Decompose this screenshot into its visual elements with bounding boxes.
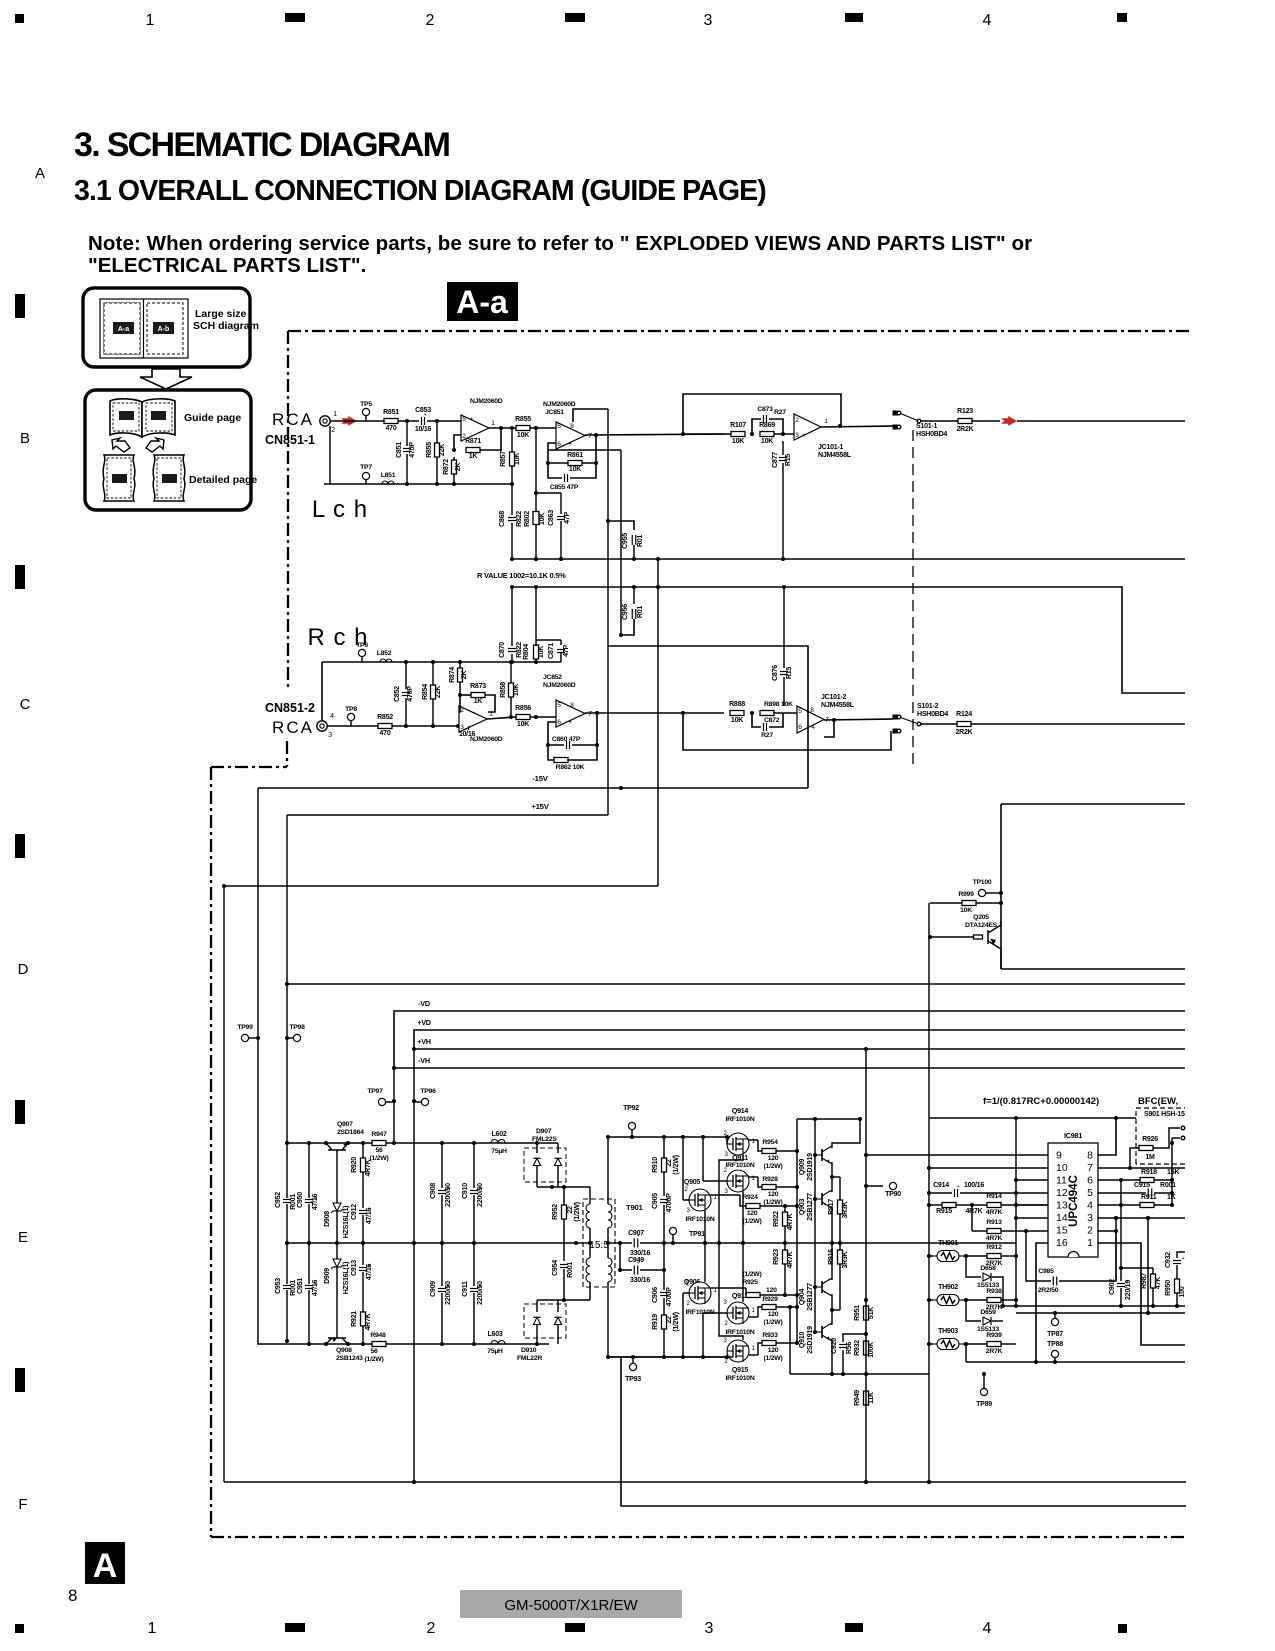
svg-text:R932: R932 (854, 1340, 861, 1356)
svg-text:C954: C954 (552, 1260, 559, 1276)
wire +V drop (413, 1049, 415, 1482)
svg-text:470P: 470P (407, 686, 414, 702)
row mark A-B (15, 294, 25, 318)
capacitor C870 (511, 587, 513, 646)
test point TP6 (358, 649, 365, 656)
legend book left page (110, 399, 142, 437)
svg-text:TP91: TP91 (689, 1231, 705, 1238)
legend box large-size SCH diagram (83, 288, 250, 367)
svg-text:2SB1243: 2SB1243 (336, 1355, 363, 1362)
switch S101-1 HSH0BD4 (893, 411, 898, 415)
svg-text:R56: R56 (846, 1342, 853, 1354)
svg-text:R888: R888 (729, 701, 745, 708)
legend arrow down (140, 369, 192, 389)
diode D907a (536, 1143, 538, 1153)
capacitor C873 (752, 419, 761, 434)
svg-text:R947: R947 (371, 1131, 387, 1138)
diode D910a (536, 1300, 538, 1312)
resistor R872 2K (452, 460, 457, 474)
svg-text:C907: C907 (628, 1230, 644, 1237)
svg-text:120: 120 (747, 1210, 758, 1217)
mosfet Q915 IRF1010N (727, 1340, 749, 1362)
svg-text:R124: R124 (956, 711, 972, 718)
registration mark top 3-4 (845, 13, 863, 22)
svg-text:+: + (467, 724, 471, 731)
rail +VD (414, 1030, 1185, 1049)
wire to JC851a (427, 420, 461, 422)
test point TP87 (1051, 1318, 1058, 1325)
svg-text:L603: L603 (487, 1331, 502, 1338)
svg-text:2SD1919: 2SD1919 (807, 1153, 814, 1181)
svg-text:22K: 22K (435, 685, 442, 698)
capacitor C985 2R2/50 (1052, 1277, 1054, 1286)
svg-text:56: 56 (375, 1147, 383, 1154)
page corner mark bottom-left (15, 1624, 24, 1633)
wire bus x224 (224, 885, 658, 887)
svg-text:R855: R855 (515, 416, 531, 423)
svg-text:R804: R804 (523, 644, 530, 660)
resistor R851 (384, 419, 398, 424)
node R888-R898 (750, 711, 754, 715)
svg-text:C920: C920 (831, 1338, 838, 1354)
svg-text:C952: C952 (275, 1192, 282, 1208)
vertical bus x621 (620, 450, 622, 635)
svg-text:2: 2 (1087, 1225, 1093, 1237)
ground rail Lch input (324, 483, 512, 485)
svg-text:2: 2 (724, 1321, 728, 1327)
A-a region border left lower (210, 767, 212, 1537)
svg-text:R123: R123 (957, 408, 973, 415)
svg-text:R918: R918 (1141, 1169, 1157, 1176)
svg-text:R001: R001 (567, 1262, 574, 1278)
svg-text:D908: D908 (324, 1211, 331, 1227)
wire Q906 source (704, 1243, 706, 1282)
page corner mark top-right (1117, 13, 1127, 22)
capacitor C915 R001 (1147, 1189, 1149, 1198)
svg-text:TH901: TH901 (938, 1240, 958, 1247)
svg-text:R912: R912 (986, 1244, 1002, 1251)
test point TP5 (362, 408, 369, 415)
svg-text:C910: C910 (462, 1183, 469, 1199)
svg-text:S101-1: S101-1 (916, 423, 938, 430)
wire pin10 (929, 1167, 1048, 1169)
svg-text:3: 3 (1087, 1212, 1093, 1224)
transformer T901 dashed box (583, 1199, 615, 1287)
resistor R804 10K (534, 645, 539, 659)
svg-text:6: 6 (557, 441, 561, 448)
resistor R949 11K (864, 1391, 869, 1405)
wire gate Q905 (682, 1137, 684, 1200)
svg-text:TP100: TP100 (973, 879, 992, 886)
op-amp JC101-2 NJM4558L (797, 706, 824, 733)
svg-text:(1/2W): (1/2W) (764, 1199, 783, 1206)
legend book right dashed (146, 403, 172, 431)
A-a region border bottom (211, 1536, 1186, 1538)
diode pair D907 FML22S dashed box (524, 1148, 566, 1182)
svg-text:UPC494C: UPC494C (1068, 1175, 1080, 1227)
node C854 (456, 724, 460, 728)
svg-text:1K: 1K (474, 698, 484, 705)
svg-text:10K: 10K (513, 683, 520, 696)
capacitor C954 (560, 1264, 568, 1266)
A-a region border top (288, 330, 1190, 332)
svg-text:C855 47P: C855 47P (550, 484, 579, 491)
svg-text:5: 5 (557, 423, 561, 430)
legend arrow to detail right (146, 438, 164, 452)
svg-text:3.1 OVERALL CONNECTION DIAGRAM: 3.1 OVERALL CONNECTION DIAGRAM (GUIDE PA… (74, 175, 766, 207)
svg-text:R001: R001 (1160, 1182, 1176, 1189)
svg-text:D: D (18, 961, 29, 978)
svg-text:15:5: 15:5 (589, 1240, 609, 1251)
wire JC101-2 out (824, 719, 893, 720)
svg-text:NJM2060D: NJM2060D (470, 398, 503, 405)
wire Rch output line (971, 723, 1185, 725)
svg-text:10K: 10K (732, 438, 745, 445)
svg-text:TP99: TP99 (237, 1024, 253, 1031)
svg-text:TP87: TP87 (1047, 1331, 1063, 1338)
legend book left dashed (113, 403, 139, 431)
svg-text:(1/2W): (1/2W) (743, 1271, 762, 1278)
svg-text:22: 22 (666, 1316, 673, 1324)
transformer secondary taps (620, 1242, 632, 1244)
wire pin14 (1016, 1217, 1048, 1219)
capacitor C950 47/16 (308, 1143, 310, 1198)
capacitor C906 4700P (663, 1243, 665, 1290)
svg-text:(1/2W): (1/2W) (370, 1155, 389, 1162)
svg-text:-15V: -15V (532, 774, 548, 783)
svg-text:120: 120 (768, 1347, 779, 1354)
wire JC851b out (585, 434, 731, 435)
svg-text:75µH: 75µH (487, 1348, 503, 1355)
wire node y1374 (790, 1373, 929, 1375)
svg-text:IRF1010N: IRF1010N (725, 1162, 754, 1169)
resistor R954 120 (1/2W) (749, 1139, 758, 1141)
svg-text:R822: R822 (516, 511, 523, 527)
resistor R938 2R7K (966, 1299, 987, 1301)
feedback C855 47P (548, 463, 562, 478)
legend mini label A-a (113, 322, 134, 334)
capacitor C909 2200/50 (441, 1243, 443, 1286)
diode D910b (557, 1300, 559, 1312)
node R107-R869 (750, 432, 754, 436)
svg-text:R855: R855 (426, 442, 433, 458)
svg-text:13: 13 (1056, 1200, 1068, 1212)
svg-text:10/16: 10/16 (415, 426, 432, 433)
svg-text:C955: C955 (622, 533, 629, 549)
svg-text:TP7: TP7 (360, 464, 372, 471)
resistor R948 56 (1/2W) (372, 1342, 386, 1347)
wire pin6 (1098, 1179, 1121, 1181)
svg-text:R873: R873 (470, 683, 486, 690)
svg-text:2K: 2K (455, 462, 462, 472)
svg-text:(1/2W): (1/2W) (365, 1356, 384, 1363)
svg-text:C911: C911 (462, 1281, 469, 1297)
S901 dashed box (1136, 1108, 1185, 1164)
svg-text:3: 3 (705, 1620, 714, 1637)
resistor R939 2R7K (966, 1343, 987, 1345)
svg-text:R15: R15 (786, 667, 793, 679)
transistor Q909 2SD1919 (821, 1149, 823, 1161)
svg-text:R869: R869 (759, 422, 775, 429)
svg-text:R822: R822 (516, 642, 523, 658)
svg-text:+: + (957, 1184, 960, 1190)
svg-text:5: 5 (462, 416, 466, 423)
rail bottom y1482 (224, 1481, 1186, 1483)
svg-text:1K: 1K (1167, 1194, 1177, 1201)
wire TH903 down (965, 1344, 967, 1362)
svg-text:HZS16L(1): HZS16L(1) (343, 1262, 350, 1295)
svg-text:JC101-1: JC101-1 (818, 444, 844, 451)
svg-text:L852: L852 (377, 650, 392, 657)
svg-text:C860 47P: C860 47P (552, 736, 581, 743)
svg-text:D659: D659 (980, 1309, 996, 1316)
svg-text:7: 7 (588, 433, 592, 440)
svg-text:Detailed page: Detailed page (189, 474, 257, 486)
svg-text:2200/50: 2200/50 (477, 1183, 484, 1207)
sheet label A box (85, 1542, 125, 1584)
legend open sheet outline (100, 299, 188, 358)
svg-text:Q907: Q907 (337, 1121, 353, 1128)
rail mid upper (512, 558, 1185, 560)
resistor R950 100 (1175, 1279, 1180, 1293)
resistor R869 10K (760, 432, 774, 437)
svg-text:R874: R874 (449, 667, 456, 683)
resistor R910 22 (1/2W) (663, 1137, 665, 1158)
svg-text:R914: R914 (986, 1193, 1002, 1200)
row mark B-C (15, 565, 25, 589)
rail +VH (414, 1048, 1185, 1050)
resistor R912 2R7K (966, 1255, 987, 1257)
svg-text:RCA: RCA (272, 410, 314, 429)
legend mini label A-b (153, 322, 174, 334)
capacitor C955 (608, 521, 634, 530)
svg-text:R917: R917 (828, 1199, 835, 1215)
rail -VH (394, 1067, 1185, 1069)
svg-text:4: 4 (1087, 1200, 1093, 1212)
capacitor C853 (421, 417, 423, 425)
svg-text:TP88: TP88 (1047, 1341, 1063, 1348)
svg-text:(1/2W): (1/2W) (764, 1355, 783, 1362)
capacitor C854 (465, 722, 467, 730)
svg-text:3: 3 (723, 1300, 727, 1306)
svg-text:C949: C949 (628, 1257, 644, 1264)
svg-text:Large size: Large size (195, 308, 247, 320)
rail gate bus top (608, 1136, 733, 1138)
capacitor C953 (283, 1285, 291, 1287)
resistor R947 56 (1/2W) (372, 1141, 386, 1146)
capacitor C863 47P (557, 516, 565, 518)
svg-text:TP97: TP97 (367, 1088, 383, 1095)
svg-text:2: 2 (460, 707, 464, 714)
node R855v gnd (435, 482, 439, 486)
svg-text:2: 2 (684, 1187, 688, 1193)
svg-text:R001: R001 (290, 1194, 297, 1210)
svg-text:R854: R854 (422, 684, 429, 700)
registration mark bottom 1-2 (285, 1623, 305, 1632)
svg-text:D909: D909 (324, 1268, 331, 1284)
svg-text:A: A (35, 165, 45, 182)
svg-text:(1/2W): (1/2W) (743, 1218, 762, 1225)
svg-text:C912: C912 (351, 1204, 358, 1220)
transistor Q904 2SB1277 (821, 1281, 823, 1293)
svg-text:C932: C932 (1165, 1252, 1172, 1268)
wire JC852 out (585, 712, 724, 714)
A-a region border jog horizontal (211, 766, 287, 768)
capacitor C905 4700P (660, 1199, 668, 1201)
transistor Q903 2SB1277 (821, 1193, 823, 1205)
resistor R854 22K (432, 662, 434, 685)
svg-text:1: 1 (751, 1346, 755, 1352)
wire pin12 (1016, 1192, 1048, 1194)
page corner mark bottom-right (1118, 1624, 1127, 1633)
op-amp IC852b JC852 (556, 700, 585, 727)
svg-text:5: 5 (798, 708, 802, 715)
rail y1306 (1003, 1305, 1185, 1307)
resistor R911 1K (1140, 1203, 1154, 1208)
svg-text:100/16: 100/16 (964, 1182, 984, 1189)
svg-text:C863: C863 (548, 510, 555, 526)
svg-text:R15: R15 (785, 454, 792, 466)
svg-text:IRF1010N: IRF1010N (725, 1116, 754, 1123)
capacitor C908 2200/50 (441, 1143, 443, 1188)
svg-text:3: 3 (328, 731, 332, 739)
svg-text:R01: R01 (637, 535, 644, 547)
svg-text:2: 2 (795, 417, 799, 424)
svg-text:22: 22 (567, 1206, 574, 1214)
wire rectifier bottom (537, 1299, 590, 1301)
svg-text:SCH diagram: SCH diagram (193, 320, 259, 332)
wire pin7 (1098, 1167, 1185, 1169)
svg-text:5: 5 (557, 702, 561, 709)
svg-text:8: 8 (570, 702, 574, 709)
svg-text:A-a: A-a (118, 326, 129, 333)
op-amp JC101-1 NJM4558L (794, 414, 821, 440)
svg-text:2SB1277: 2SB1277 (807, 1193, 814, 1221)
registration mark bottom 2-3 (565, 1623, 585, 1632)
wire +15V (287, 814, 608, 816)
signal flow arrow Lch input (341, 416, 357, 426)
svg-text:3: 3 (724, 1152, 728, 1158)
svg-text:2R2K: 2R2K (956, 729, 974, 736)
svg-text:4: 4 (983, 12, 992, 29)
wire pin16 (1036, 1243, 1048, 1362)
svg-text:100K: 100K (868, 1341, 875, 1358)
wire to JC852 (530, 716, 556, 718)
svg-text:C853: C853 (415, 407, 431, 414)
svg-text:3R3K: 3R3K (842, 1200, 849, 1218)
rail converter mid primary (286, 1242, 576, 1244)
svg-text:3R3K: 3R3K (842, 1250, 849, 1268)
svg-text:2: 2 (686, 1301, 690, 1307)
page corner mark top-left (15, 14, 24, 23)
box wire mid (608, 646, 808, 788)
svg-text:CN851-2: CN851-2 (265, 701, 315, 715)
wire x1148 pin3 drop (1147, 1218, 1149, 1313)
op-amp IC851b JC851 (556, 422, 585, 449)
svg-text:R999: R999 (958, 891, 974, 898)
svg-text:R VALUE 1002=10.1K 0.5%: R VALUE 1002=10.1K 0.5% (477, 571, 566, 580)
svg-text:+: + (802, 432, 806, 439)
resistor R852 470 (378, 724, 392, 729)
svg-text:+VD: +VD (417, 1018, 431, 1027)
svg-text:NJM4558L: NJM4558L (818, 452, 852, 459)
svg-text:47K: 47K (1155, 1276, 1162, 1289)
diode D907b (557, 1143, 559, 1153)
svg-text:3. SCHEMATIC DIAGRAM: 3. SCHEMATIC DIAGRAM (74, 126, 450, 164)
svg-text:R911: R911 (1141, 1194, 1157, 1201)
svg-text:Q910: Q910 (799, 1332, 806, 1349)
capacitor C912 47/16 (359, 1210, 367, 1212)
legend book mark left (119, 411, 134, 420)
svg-text:2: 2 (724, 1359, 728, 1365)
resistor R918 15K (1140, 1178, 1154, 1183)
wire Q915 source (719, 1243, 743, 1340)
gate drive bus pair (797, 1118, 860, 1120)
svg-text:8: 8 (1087, 1150, 1093, 1162)
svg-text:R910: R910 (652, 1157, 659, 1173)
resistor R923 4R7K (784, 1243, 786, 1250)
wire to JC101-1 (774, 433, 794, 435)
capacitor C932 (1177, 1252, 1185, 1258)
wire Rch input (327, 725, 459, 727)
legend sheet dashed page A-a (104, 303, 140, 354)
svg-text:330/16: 330/16 (630, 1277, 650, 1284)
diode D659 1S5133 (966, 1300, 981, 1321)
svg-text:2SD1864: 2SD1864 (337, 1129, 364, 1136)
resistor R921 4R7K (361, 1312, 366, 1326)
svg-text:10K: 10K (517, 432, 530, 439)
svg-text:R861: R861 (567, 452, 583, 459)
zener D909 HZS16L(1) (336, 1243, 338, 1259)
svg-text:TP98: TP98 (289, 1024, 305, 1031)
svg-text:8: 8 (68, 1586, 77, 1605)
svg-text:2200/50: 2200/50 (477, 1281, 484, 1305)
wire R913 to C985 (1026, 1231, 1051, 1281)
svg-text:TP92: TP92 (623, 1105, 639, 1112)
svg-text:R871: R871 (465, 438, 481, 445)
vertical bus x929 (928, 903, 930, 1482)
node R872 top (452, 448, 456, 452)
section label A-a box (447, 282, 518, 321)
wire Rch shield (321, 662, 323, 721)
svg-text:1: 1 (148, 1620, 157, 1637)
node R872 gnd (452, 482, 456, 486)
svg-text:1: 1 (333, 410, 337, 418)
svg-text:JC851: JC851 (545, 409, 564, 416)
svg-text:2R2/50: 2R2/50 (1038, 1287, 1059, 1294)
feedback R861 10K (582, 435, 596, 463)
svg-text:R919: R919 (652, 1314, 659, 1330)
svg-text:GM-5000T/X1R/EW: GM-5000T/X1R/EW (504, 1597, 638, 1614)
svg-text:R27: R27 (761, 732, 773, 739)
resistor R929 120 (1/2W) (749, 1316, 758, 1318)
svg-text:C: C (20, 696, 31, 713)
wire Q914 source (719, 1155, 743, 1243)
svg-text:A-a: A-a (456, 284, 508, 320)
wire pin2 (1098, 1230, 1116, 1232)
wire pin13 (1016, 1204, 1048, 1206)
svg-text:330/16: 330/16 (630, 1250, 650, 1257)
row mark C-D (15, 834, 25, 858)
svg-text:(1/2W): (1/2W) (673, 1312, 680, 1332)
svg-text:C908: C908 (430, 1183, 437, 1199)
block outline Q205 (1001, 803, 1185, 805)
svg-text:Q911: Q911 (732, 1155, 748, 1162)
svg-text:+VH: +VH (417, 1037, 431, 1046)
legend book mark right (151, 411, 166, 420)
svg-text:120: 120 (768, 1311, 779, 1318)
svg-text:2: 2 (427, 1620, 436, 1637)
